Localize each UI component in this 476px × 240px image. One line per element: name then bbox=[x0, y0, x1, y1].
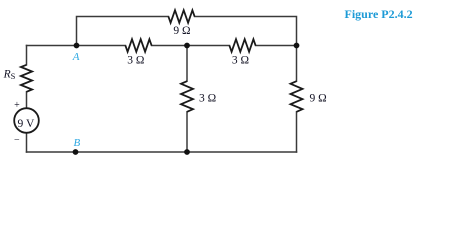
wire second rail right segment bbox=[256, 45, 297, 47]
wire second rail middle segment bbox=[152, 45, 230, 47]
resistor 3 ohm middle vertical zigzag bbox=[181, 81, 193, 112]
resistor 9 ohm right vertical zigzag bbox=[291, 81, 303, 112]
node A junction dot bbox=[74, 43, 80, 49]
svg-text:3 Ω: 3 Ω bbox=[232, 54, 249, 66]
wire second rail left segment bbox=[27, 45, 126, 47]
svg-text:3 Ω: 3 Ω bbox=[199, 92, 216, 104]
svg-text:9 Ω: 9 Ω bbox=[310, 92, 327, 104]
wire middle branch lower bbox=[186, 112, 188, 152]
svg-text:B: B bbox=[74, 137, 81, 149]
junction dot right top bbox=[294, 43, 300, 49]
junction dot middle top bbox=[184, 43, 190, 49]
resistor 3 ohm right horizontal zigzag bbox=[229, 39, 255, 52]
node B junction dot bbox=[73, 149, 79, 155]
resistor 3 ohm left horizontal zigzag bbox=[125, 39, 151, 52]
resistor Rs zigzag bbox=[21, 65, 32, 92]
wire left branch lower bbox=[26, 133, 28, 152]
junction dot middle bottom bbox=[184, 149, 190, 155]
wire left branch upper bbox=[26, 46, 28, 65]
svg-text:9 Ω: 9 Ω bbox=[173, 25, 190, 37]
svg-text:+: + bbox=[14, 100, 20, 111]
wire top rail left segment bbox=[77, 17, 169, 46]
wire bottom rail bbox=[27, 151, 297, 153]
svg-text:3 Ω: 3 Ω bbox=[127, 54, 144, 66]
svg-text:A: A bbox=[72, 51, 80, 63]
voltage source 9V circle bbox=[14, 108, 39, 133]
svg-text:RS: RS bbox=[3, 68, 16, 81]
wire right branch lower bbox=[296, 112, 298, 152]
svg-text:−: − bbox=[14, 135, 20, 146]
wire right branch upper bbox=[296, 46, 298, 82]
svg-text:Figure P2.4.2: Figure P2.4.2 bbox=[345, 7, 413, 21]
resistor 9 ohm top zigzag bbox=[168, 10, 194, 23]
wire middle branch upper bbox=[186, 46, 188, 82]
wire left branch between Rs and source bbox=[26, 92, 28, 108]
svg-text:9 V: 9 V bbox=[18, 118, 35, 130]
wire top rail right segment bbox=[195, 17, 297, 46]
